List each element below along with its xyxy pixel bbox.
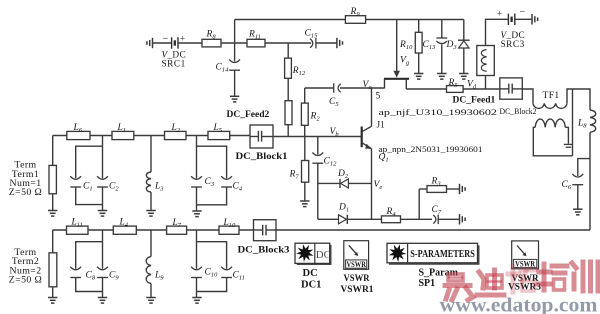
svg-text:5: 5: [376, 92, 381, 102]
wire D2 to emitter node V_e: [348, 182, 371, 184]
wire R11 to C15: [265, 42, 311, 44]
svg-text:L9: L9: [154, 271, 164, 282]
svg-text:C15: C15: [305, 29, 319, 40]
inductor L9 (shunt coil): [150, 230, 152, 257]
svg-text:Ve: Ve: [374, 180, 383, 191]
S-PARAMETERS controller block: [389, 245, 480, 264]
svg-text:DC1: DC1: [301, 280, 321, 291]
wire DC_Feed1 to source row: [485, 76, 487, 90]
capacitor DC_Block3 (boxed): [254, 220, 277, 241]
ground under L3: [146, 211, 155, 217]
ground at TF1 secondary: [564, 144, 573, 147]
svg-text:R3: R3: [431, 177, 442, 188]
ground under C2: [98, 211, 107, 217]
wire D2 row: [318, 182, 340, 184]
svg-text:C6: C6: [562, 180, 572, 191]
wire battery to ground: [515, 18, 532, 20]
capacitor C8 (jog branch): [76, 242, 103, 269]
svg-text:D1: D1: [338, 203, 349, 214]
svg-text:C14: C14: [216, 63, 230, 74]
resistor R7 with ground: [304, 137, 306, 161]
resistor R8: [202, 39, 221, 47]
transistor Q1 base bar: [361, 127, 363, 148]
capacitor C10: [196, 230, 198, 269]
svg-text:www.edatop.com: www.edatop.com: [440, 295, 598, 314]
ground under C10: [192, 298, 201, 304]
ground (rotated) at V_DC SRC1 minus side: [147, 38, 153, 48]
svg-text:Z=50 Ω: Z=50 Ω: [9, 275, 42, 286]
ground under C13: [437, 74, 446, 80]
inductor DC_Feed2: [285, 101, 292, 125]
ground under C9: [98, 298, 107, 304]
svg-text:S-PARAMETERS: S-PARAMETERS: [410, 249, 475, 260]
wire emitter down to D1 row: [371, 149, 373, 220]
svg-text:L7: L7: [172, 218, 182, 229]
SECTION: watermark: [445, 262, 598, 300]
wire R5 to DC_Block2: [463, 88, 500, 90]
svg-text:VSWR: VSWR: [344, 274, 370, 284]
VSWR1 measurement block: [344, 241, 369, 270]
svg-text:Q1: Q1: [379, 152, 389, 163]
inductor L2: [165, 131, 187, 139]
wire junction to R3: [419, 188, 427, 190]
svg-text:L10: L10: [223, 218, 237, 229]
battery V_DC SRC3: [508, 14, 514, 25]
svg-text:L5: L5: [213, 123, 223, 134]
wire R12 column from bias wire down to V_b wire: [287, 43, 289, 137]
svg-text:R8: R8: [206, 30, 217, 41]
transformer TF1 secondary coil: [535, 119, 565, 127]
wire D1 to R4: [347, 218, 381, 220]
capacitor C11 (jog branch): [197, 242, 227, 269]
svg-text:C5: C5: [329, 97, 339, 108]
wire D1 row: [318, 218, 339, 220]
ground under C14: [230, 96, 239, 102]
svg-text:SRC1: SRC1: [162, 60, 186, 70]
resistor R12: [285, 58, 292, 78]
inductor L10: [219, 226, 239, 234]
top rail wire: [235, 19, 464, 21]
svg-text:R12: R12: [292, 66, 306, 77]
ground under C6: [573, 209, 582, 215]
wire L8 down to row-2 wire: [589, 132, 591, 230]
capacitor C3: [196, 136, 198, 179]
svg-text:C12: C12: [324, 157, 338, 168]
diode D2 (pointing left): [339, 179, 341, 188]
svg-text:ap_njf_U310_19930602: ap_njf_U310_19930602: [379, 107, 498, 117]
resistor R2: [301, 103, 308, 125]
char di: [477, 270, 504, 295]
inductor L4: [113, 226, 136, 234]
svg-text:R4: R4: [386, 207, 397, 218]
svg-text:Vg: Vg: [400, 56, 410, 67]
transistor Q1 emitter stroke with arrow: [362, 143, 372, 149]
wire filter row 2 (to output riser): [53, 229, 590, 231]
port Term2: [52, 230, 54, 253]
capacitor DC_Block1 (boxed): [250, 125, 273, 148]
svg-text:C7: C7: [432, 205, 442, 216]
svg-text:VSWR: VSWR: [515, 260, 535, 269]
ground under Term2: [48, 298, 57, 304]
resistor R9: [345, 16, 365, 24]
ground (rotated) after C15: [337, 38, 343, 48]
resistor R5: [447, 86, 464, 93]
capacitor C1 (jog branch): [76, 146, 103, 178]
svg-text:DC_Feed2: DC_Feed2: [227, 110, 270, 120]
svg-text:L2: L2: [171, 123, 181, 134]
svg-text:C11: C11: [233, 271, 245, 282]
svg-text:TF1: TF1: [543, 91, 560, 101]
svg-text:R7: R7: [289, 169, 300, 180]
ground (rotated) after R3: [460, 184, 466, 194]
svg-text:SRC3: SRC3: [501, 40, 525, 50]
wire C7 to ground: [438, 218, 459, 220]
ground under R7: [300, 201, 309, 207]
wire gate line with arrow into JFET J1: [396, 20, 398, 72]
wire source row to R5: [406, 88, 446, 90]
svg-text:D3: D3: [446, 40, 458, 51]
svg-text:C10: C10: [205, 268, 219, 279]
resistor R10 with ground: [418, 20, 420, 74]
capacitor C5: [334, 83, 341, 93]
ground under Term1: [48, 211, 57, 217]
transistor J1 channel bar: [384, 78, 409, 80]
resistor R11: [247, 39, 265, 47]
capacitor C13 with ground: [441, 20, 443, 39]
ground under R10: [414, 74, 423, 80]
svg-text:L11: L11: [71, 217, 83, 228]
wire secondary right leg to ground: [565, 127, 568, 144]
svg-text:+: +: [180, 34, 185, 44]
svg-text:C1: C1: [83, 181, 93, 192]
capacitor C4 (jog branch): [197, 146, 227, 178]
svg-text:L6: L6: [73, 123, 83, 134]
svg-text:C8: C8: [86, 271, 96, 282]
wire primary right riser and top output wire: [567, 89, 590, 110]
wire output tap riser: [572, 89, 574, 156]
wire battery to R8: [178, 42, 202, 44]
svg-text:Va: Va: [363, 80, 372, 91]
wire J1 right stub: [405, 79, 407, 89]
transistor Q1 collector stroke: [362, 126, 372, 131]
diode D3: [463, 20, 465, 41]
capacitor C14 below junction: [234, 43, 236, 62]
svg-text:SP1: SP1: [419, 278, 436, 289]
wire R2 to C5: [305, 87, 334, 89]
svg-text:R2: R2: [310, 112, 321, 123]
ground under C3: [192, 211, 201, 217]
ground under L9: [146, 298, 155, 304]
svg-text:D2: D2: [337, 169, 349, 180]
inductor L8: [590, 110, 596, 132]
capacitor C9: [102, 230, 104, 269]
capacitor C7: [433, 215, 438, 225]
wire V_b row: [273, 136, 362, 138]
svg-text:DC_Block1: DC_Block1: [236, 152, 288, 162]
svg-text:Z=50 Ω: Z=50 Ω: [9, 187, 42, 198]
capacitor C15: [310, 38, 316, 48]
svg-text:R5: R5: [448, 78, 459, 89]
wire collector riser: [371, 88, 373, 126]
char yi: [445, 274, 473, 300]
ground under D3: [459, 74, 468, 80]
capacitor C2: [102, 136, 104, 179]
inductor L7: [167, 226, 187, 234]
port Term1: [52, 136, 54, 166]
svg-text:ap_npn_2N5031_19930601: ap_npn_2N5031_19930601: [379, 144, 483, 154]
inductor L3 (shunt coil): [150, 136, 152, 173]
inductor L6: [67, 131, 90, 139]
char tuo (faint): [508, 266, 535, 292]
svg-text:L3: L3: [154, 181, 164, 192]
svg-text:DC_Feed1: DC_Feed1: [453, 96, 496, 106]
capacitor C6 branch: [578, 159, 590, 176]
svg-text:R9: R9: [350, 7, 361, 18]
svg-text:−: −: [163, 34, 169, 45]
svg-text:C9: C9: [109, 271, 119, 282]
resistor R3 with ground: [427, 186, 447, 193]
svg-text:DC: DC: [303, 268, 318, 279]
svg-text:VSWR: VSWR: [346, 260, 366, 269]
battery V_DC SRC1: [172, 37, 178, 48]
wire C15 to ground: [316, 42, 337, 44]
char xun: [572, 262, 598, 291]
svg-text:R10: R10: [399, 40, 413, 51]
svg-text:+: +: [497, 9, 502, 19]
svg-text:L4: L4: [119, 217, 129, 228]
wire junction riser to top rail: [234, 20, 236, 44]
svg-text:VSWR1: VSWR1: [341, 285, 374, 295]
svg-text:DC_Block3: DC_Block3: [238, 246, 290, 256]
inductor L1: [112, 131, 134, 139]
capacitor C12: [317, 137, 319, 155]
wire ground to battery SRC1: [153, 42, 171, 44]
wire SRC3 to DC_Feed1: [486, 19, 509, 45]
svg-text:L1: L1: [117, 123, 127, 134]
svg-text:DC_Block2: DC_Block2: [500, 106, 537, 116]
svg-text:L8: L8: [577, 119, 587, 130]
wire R2 top stub: [304, 88, 306, 103]
inductor L5: [208, 131, 230, 139]
svg-text:C4: C4: [233, 181, 243, 192]
svg-text:C3: C3: [205, 177, 215, 188]
diode D1 (pointing right): [339, 215, 347, 224]
svg-text:J1: J1: [377, 121, 386, 131]
wire R4 to C7 with junction riser: [401, 218, 433, 220]
wire R8 to R11 with junction: [221, 42, 247, 44]
wire C5 to JFET gate node: [340, 87, 385, 89]
VSWR3 measurement block: [512, 241, 539, 269]
svg-text:−: −: [520, 7, 526, 18]
wire secondary left leg and bottom: [533, 127, 572, 156]
char pei: [538, 264, 567, 290]
wire filter row 1: [53, 135, 250, 137]
transformer TF1 primary coil: [533, 103, 567, 108]
inductor DC_Feed1 (boxed coil): [477, 46, 495, 76]
ground (rotated) after C7: [460, 214, 466, 224]
svg-text:DC: DC: [316, 249, 331, 261]
DC controller block: [297, 245, 332, 265]
svg-text:R11: R11: [248, 30, 261, 41]
capacitor DC_Block2 (boxed): [500, 78, 523, 99]
svg-text:C13: C13: [423, 40, 437, 51]
resistor R4: [382, 216, 401, 223]
wire DC_Block2 to TF1: [522, 89, 533, 103]
wire J1 left stub: [384, 79, 386, 89]
svg-text:C2: C2: [109, 181, 119, 192]
wire R2 bottom stub: [304, 125, 306, 136]
ground (rotated) after SRC3: [532, 14, 538, 24]
inductor L11: [67, 226, 89, 234]
